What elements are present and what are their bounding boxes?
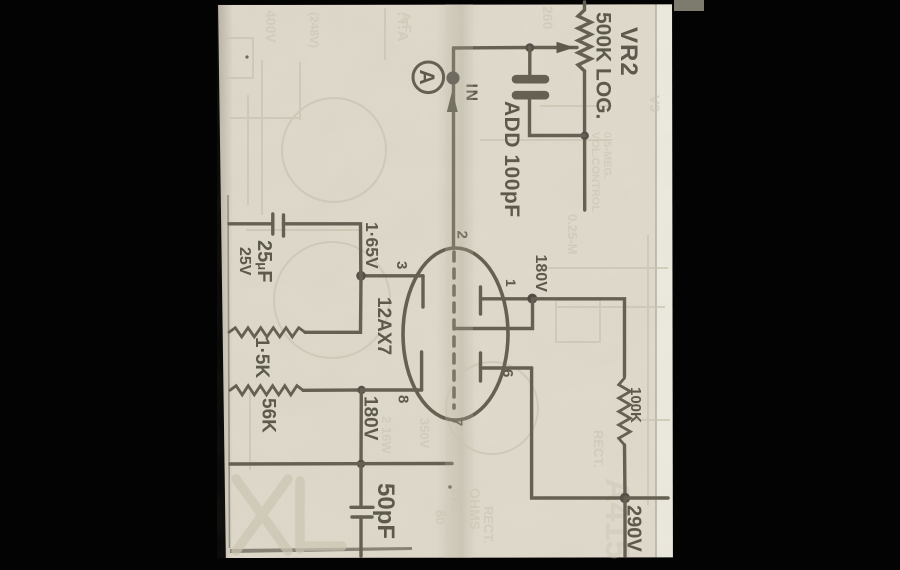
ghost bold X letters bottom-left xyxy=(236,479,342,551)
anode pin 6 bar xyxy=(479,353,482,381)
svg-text:50pF: 50pF xyxy=(372,483,399,539)
capacitor 25uF plate 2 xyxy=(282,215,285,236)
ink speck xyxy=(245,55,248,58)
svg-text:1: 1 xyxy=(503,279,519,287)
fold sheen overlay xyxy=(445,4,473,558)
wire: 25uF right lead to cathode node xyxy=(284,224,361,276)
svg-text:1·5K: 1·5K xyxy=(251,337,272,378)
wire: 180V node down and left to grid line xyxy=(456,299,533,329)
wire: pin 6 to right vertical xyxy=(481,366,532,369)
resistor 1.5K zigzag xyxy=(229,328,305,337)
wire: main IN vertical line down to tube pin 2 xyxy=(452,48,455,248)
tube 12AX7 envelope xyxy=(403,248,508,420)
wire: 100pF bottom lead to pot bottom xyxy=(530,100,585,136)
wire: pin 6 down to 290V rail xyxy=(532,368,625,498)
svg-text:500K LOG.: 500K LOG. xyxy=(592,12,615,119)
wiper arrowhead of VR2 xyxy=(557,42,575,53)
svg-text:25μF: 25μF xyxy=(253,240,275,282)
main schematic ink xyxy=(229,2,668,556)
cathode pin 3 bar xyxy=(421,276,424,307)
svg-text:A: A xyxy=(415,70,438,85)
svg-text:100K: 100K xyxy=(627,387,644,423)
resistor 100K zigzag xyxy=(619,378,631,445)
svg-text:0.25-M: 0.25-M xyxy=(565,214,580,254)
junction dot pin8 node xyxy=(357,386,365,394)
potentiometer VR2 500K element zigzag xyxy=(578,2,591,71)
svg-text:0.5-MEG.: 0.5-MEG. xyxy=(601,132,613,179)
anode pin 1 bar xyxy=(479,287,482,314)
page background xyxy=(217,4,673,558)
svg-text:56K: 56K xyxy=(258,398,279,433)
wire: 290V rail to page edge xyxy=(625,496,668,499)
capacitor 50pF plate 2 xyxy=(352,515,372,518)
capacitor 50pF plate 1 xyxy=(351,506,373,509)
capacitor 50pF top lead xyxy=(359,464,362,507)
svg-text:A.F.: A.F. xyxy=(399,12,414,35)
wire: pin 3 to cathode node xyxy=(362,274,424,277)
node A dot on IN line xyxy=(446,71,459,84)
svg-text:V3: V3 xyxy=(647,95,663,112)
capacitor 25uF plate 1 xyxy=(271,214,274,234)
arrowhead on IN line pointing up xyxy=(447,91,458,113)
svg-text:8: 8 xyxy=(395,395,412,403)
capacitor ADD 100pF: top lead xyxy=(528,48,531,75)
junction dot bottom rail xyxy=(357,460,365,468)
junction dot cathode node xyxy=(356,271,366,281)
svg-text:VR2: VR2 xyxy=(615,27,642,77)
junction dot pot bottom / 100pF xyxy=(581,132,589,140)
node A circle marker xyxy=(413,62,444,93)
svg-text:180V: 180V xyxy=(532,255,549,293)
svg-text:350V: 350V xyxy=(417,418,432,449)
wire: 100K bottom to 290V node xyxy=(623,445,627,498)
wire: 180V node right to 100K xyxy=(533,299,625,376)
wire: pin8 node down to bottom rail xyxy=(359,390,363,464)
wire: pin 1 to 180V node xyxy=(481,297,534,300)
wire: top horizontal from corner to pot wiper xyxy=(454,46,577,50)
resistor 56K zigzag xyxy=(230,386,303,395)
svg-text:260: 260 xyxy=(540,6,556,30)
svg-text:ADD 100pF: ADD 100pF xyxy=(500,101,523,218)
junction dot 290V node xyxy=(620,493,630,503)
wire: bottom rail xyxy=(230,462,452,466)
svg-text:290V: 290V xyxy=(623,505,645,552)
ghost print-through (decorative background) xyxy=(225,8,670,505)
grid dashed line inside tube xyxy=(452,252,456,408)
svg-text:3: 3 xyxy=(393,261,410,269)
svg-text:400V: 400V xyxy=(263,10,279,43)
svg-text:1·65V: 1·65V xyxy=(362,222,382,269)
svg-text:25V: 25V xyxy=(236,247,253,276)
capacitor 25uF left lead xyxy=(229,222,272,225)
wire: cathode node down to 1.5K xyxy=(305,276,361,333)
wire: pot bottom lead down xyxy=(583,71,587,210)
capacitor 100pF plate 2 xyxy=(516,91,545,100)
wire: 290V down lead xyxy=(623,498,626,556)
wire: 56K to pin8 node xyxy=(303,388,362,392)
capacitor 100pF plate 1 xyxy=(516,75,545,84)
junction dot at 100pF tap xyxy=(525,43,534,52)
svg-text:VOL.CONTROL: VOL.CONTROL xyxy=(589,132,601,212)
cathode pin 8 bar xyxy=(420,352,423,390)
svg-text:RECT.: RECT. xyxy=(591,430,606,468)
svg-text:(248V): (248V) xyxy=(307,12,321,48)
svg-text:6: 6 xyxy=(499,369,516,377)
capacitor 50pF bottom lead xyxy=(359,517,362,556)
svg-text:12AX7: 12AX7 xyxy=(373,297,394,355)
wire: pin8 node to cathode bar pin 8 xyxy=(362,388,422,391)
junction dot 180V node xyxy=(527,294,537,304)
